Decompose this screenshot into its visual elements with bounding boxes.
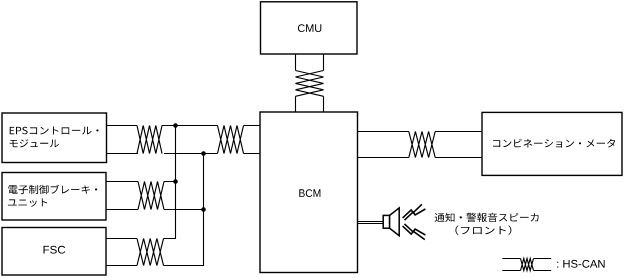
box BCM [260, 112, 358, 273]
label BCM [299, 189, 320, 197]
legend twisted-pair symbol [502, 259, 551, 271]
box EPS control module [2, 113, 107, 163]
twisted pair T4 (FSC) [137, 239, 164, 266]
box FSC [2, 228, 106, 276]
wire: speaker double line [358, 222, 384, 224]
twisted pair T3 (brake) [138, 182, 164, 210]
wire: CMU to BCM vertical pair [296, 54, 324, 112]
twisted pair T1 (EPS) [137, 126, 162, 154]
node: bus bottom / EPS [201, 151, 206, 156]
label CMU [298, 24, 321, 32]
box combination meter [482, 112, 622, 175]
node: brake top [173, 179, 178, 184]
twisted pair T2 (bus to BCM) [218, 126, 244, 154]
wire: BCM to combination meter pair [358, 132, 483, 158]
wire: brake unit pair [106, 182, 204, 210]
legend twist [521, 259, 534, 271]
twisted pair TV (CMU) [296, 71, 324, 97]
label brake line1 [8, 185, 97, 194]
label FSC [44, 246, 66, 254]
twisted pair T5 (meter) [409, 132, 435, 158]
wire: EPS pair to BCM, top [106, 125, 260, 127]
speaker icon [383, 208, 399, 236]
wire: bus branch vertical CAN-L [203, 154, 205, 266]
node: bus top / EPS [173, 123, 178, 128]
box CMU [261, 2, 358, 54]
label combination meter [493, 139, 615, 148]
label EPS line1 [10, 127, 99, 135]
label speaker line2 [455, 225, 511, 235]
label HS-CAN [557, 260, 604, 268]
wire: FSC pair [106, 239, 204, 266]
label EPS line2 [10, 139, 59, 147]
wire: EPS pair to BCM, bottom [106, 153, 260, 155]
box brake unit [2, 173, 106, 221]
node: brake bottom [201, 207, 206, 212]
label speaker line1 [435, 213, 539, 222]
junction dots [173, 123, 206, 212]
wire: bus branch vertical CAN-H [175, 126, 177, 239]
speaker sound waves [403, 204, 426, 239]
label brake line2 [8, 198, 47, 206]
